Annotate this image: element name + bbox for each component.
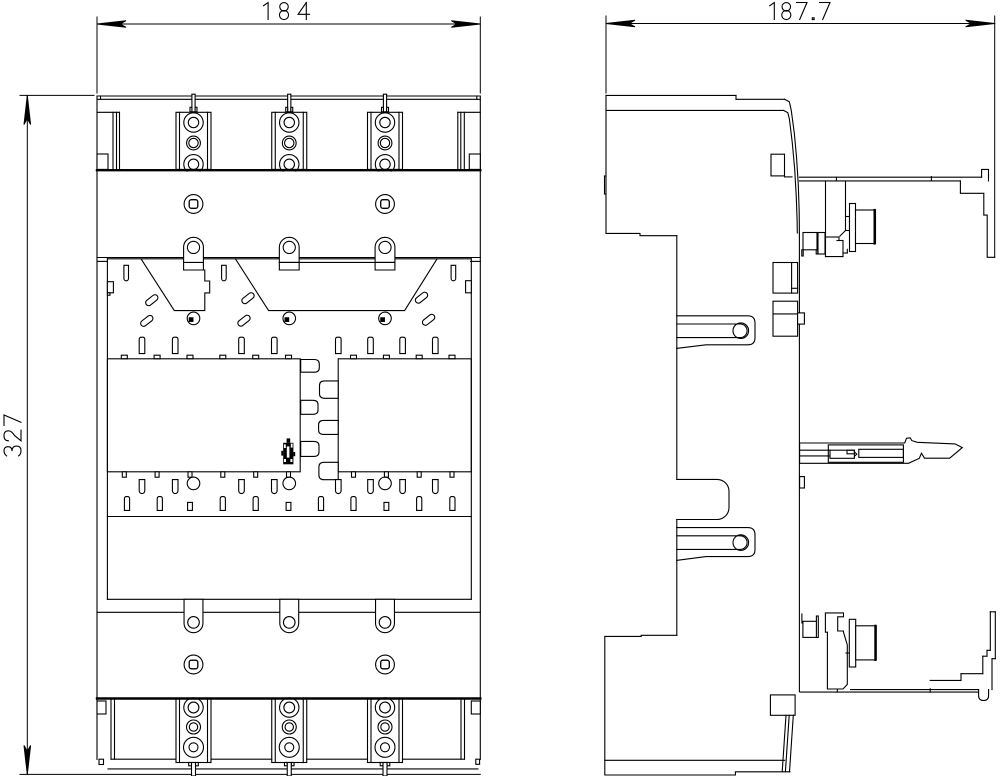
extension line top of 327 xyxy=(20,94,94,96)
upper rail arm xyxy=(799,176,981,178)
bottom feet xyxy=(99,759,104,764)
front view body outline xyxy=(97,95,480,97)
dimension 187.7 left arrow xyxy=(606,20,635,27)
extension line left of 184 xyxy=(96,17,98,93)
din rail slider blade xyxy=(800,438,963,464)
lower right hook xyxy=(990,611,995,613)
lower busbar tongue xyxy=(677,528,755,561)
lower band ticks xyxy=(122,472,126,477)
vent panel top line xyxy=(107,258,471,260)
bottom accessory: link xyxy=(846,652,849,654)
dimension 187.7 right arrow xyxy=(966,20,995,27)
left edge jog xyxy=(604,176,606,194)
left panel edge notch xyxy=(107,282,113,293)
slider rod lines xyxy=(800,449,830,451)
central channel slots xyxy=(301,360,320,373)
right panel edge notch xyxy=(466,281,472,293)
bottom accessory: flange xyxy=(849,619,855,667)
side view left edge xyxy=(605,95,607,233)
front column block A xyxy=(773,263,798,294)
dimension 187.7 text xyxy=(770,3,830,20)
lower block top line xyxy=(97,611,480,613)
vent diagonal slots xyxy=(144,294,159,307)
lower block screws xyxy=(184,655,203,674)
vent panel bottom line xyxy=(107,598,471,600)
dimension 184 text xyxy=(264,3,310,20)
vent panel left edge xyxy=(106,259,108,600)
upper accessory: step piece xyxy=(846,217,850,231)
lower band bottom line xyxy=(107,516,471,518)
upper accessory: diagonal xyxy=(840,231,846,237)
side view top edge xyxy=(606,94,736,96)
vent slots row A xyxy=(124,265,129,281)
slider inner rects xyxy=(828,445,903,462)
dimension 184 right arrow xyxy=(451,21,480,28)
bottom accessory: left tick xyxy=(801,614,803,623)
terminal wires xyxy=(192,763,196,776)
front face slope outer xyxy=(785,99,800,233)
bottom foot block xyxy=(770,695,795,715)
upper accessory: barrel xyxy=(856,210,876,244)
bottom left cheek xyxy=(97,701,106,714)
extension line right of 184 xyxy=(479,17,481,93)
upper accessory: flange xyxy=(850,204,856,252)
extension line bottom of 327 xyxy=(20,773,480,775)
side body edge below notch xyxy=(676,520,678,528)
separator line above bottom terminal strip xyxy=(97,697,480,699)
bottom accessory: barrel xyxy=(856,626,877,660)
side view bottom-left staircase xyxy=(605,635,790,775)
raised strip between middle tabs xyxy=(279,261,395,263)
hook foot xyxy=(979,690,989,701)
side view inner top line xyxy=(606,109,784,111)
top terminal blocks xyxy=(176,112,211,169)
top left cheek notch xyxy=(97,154,108,169)
bottom right cheek xyxy=(471,701,480,714)
upper front panel screws xyxy=(184,195,203,214)
lower right bracket xyxy=(930,679,961,681)
dimension 327 line xyxy=(26,96,28,775)
front face vertical xyxy=(798,233,800,692)
front column block B xyxy=(773,301,798,336)
top right cheek xyxy=(458,111,481,113)
dimension 187.7 line xyxy=(606,23,995,25)
erase strip below top terminal circles xyxy=(98,172,479,176)
middle raised trapezoid xyxy=(236,259,437,310)
upper busbar tongue xyxy=(677,316,755,349)
top edge end ticks xyxy=(100,96,102,99)
lower band slots row D xyxy=(124,497,129,511)
top right cheek notch xyxy=(469,154,480,169)
bottom accessory: divider xyxy=(816,616,818,637)
vent ticks above window line xyxy=(121,355,127,359)
lower band half slots xyxy=(188,502,193,510)
side view base line xyxy=(605,759,785,761)
left raised trapezoid xyxy=(141,259,209,310)
foot legs xyxy=(782,715,786,772)
vent slots row B xyxy=(139,337,145,353)
side body edge upper segment xyxy=(676,236,678,316)
notch below slider xyxy=(800,477,805,488)
mounting tabs lower row xyxy=(184,599,203,632)
upper accessory: block C with step xyxy=(826,236,840,238)
side view left step xyxy=(606,233,677,235)
handle recess rect xyxy=(771,154,785,176)
tick below handle xyxy=(785,176,793,178)
upper accessory: box A with legs xyxy=(803,233,817,250)
window line / windows xyxy=(107,359,300,472)
block B nub xyxy=(798,313,805,324)
upper right hook xyxy=(982,169,989,181)
bottom accessory: main block xyxy=(825,613,847,689)
dimension 327 text xyxy=(4,415,21,456)
lower rail arm xyxy=(851,689,979,691)
vent panel right edge xyxy=(470,259,472,600)
top left cheek xyxy=(97,111,120,113)
bottom accessory: box A xyxy=(803,621,817,637)
section2 bottom line xyxy=(97,257,480,259)
dimension 327 top arrow xyxy=(24,96,31,125)
extension line left of 187.7 xyxy=(605,16,607,93)
side body edge mid segment xyxy=(676,348,678,479)
separator line below top terminal strip xyxy=(97,169,480,171)
side body edge through tongues xyxy=(676,316,678,349)
lower band screw circles xyxy=(187,477,200,490)
finger notch xyxy=(677,479,729,519)
dimension 327 bottom arrow xyxy=(24,745,31,774)
left panel ledge xyxy=(97,260,107,262)
lower band slots row C xyxy=(139,480,145,494)
vent screws row (circle + square) xyxy=(187,312,200,325)
bottom strip bottom line xyxy=(111,758,176,760)
bottom terminal blocks xyxy=(176,699,211,763)
top connector tabs xyxy=(192,94,195,112)
extension line right of 187.7 / right hook edge xyxy=(994,16,996,257)
upper accessory: hanger verticals xyxy=(825,181,827,257)
dimension 184 left arrow xyxy=(97,21,126,28)
front face slope inner xyxy=(784,110,798,233)
bottom lines xyxy=(108,768,478,770)
dimension 184 line xyxy=(97,23,480,25)
small black marker icon xyxy=(283,443,293,465)
upper accessory: box B xyxy=(818,233,825,255)
side body edge lower segment xyxy=(676,560,678,635)
right panel ledge xyxy=(471,260,481,262)
mounting tabs upper row xyxy=(184,237,204,270)
